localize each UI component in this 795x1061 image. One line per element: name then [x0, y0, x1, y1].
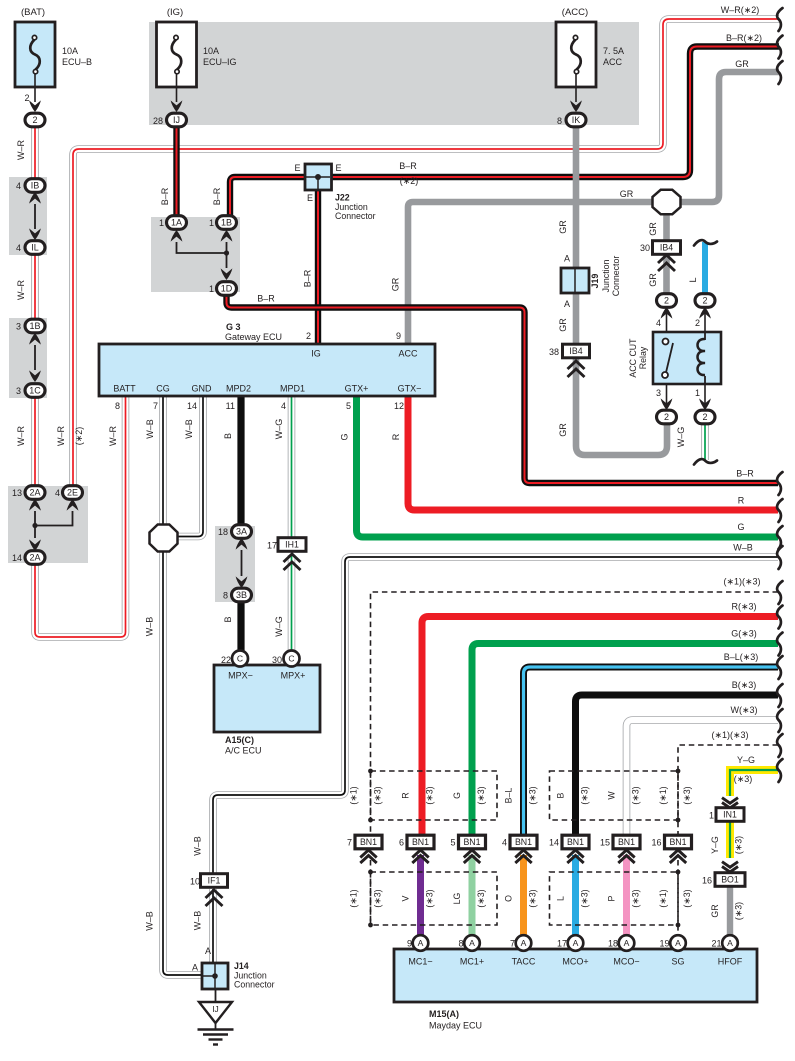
svg-text:1B: 1B	[29, 321, 40, 331]
svg-text:TACC: TACC	[512, 957, 536, 967]
svg-text:V: V	[401, 895, 411, 901]
svg-text:W–G: W–G	[274, 419, 284, 440]
svg-text:(∗1)(∗3): (∗1)(∗3)	[723, 577, 760, 587]
svg-text:IB: IB	[31, 181, 40, 191]
svg-text:(∗3): (∗3)	[425, 889, 435, 907]
svg-text:IJ: IJ	[212, 1004, 219, 1014]
svg-text:(ACC): (ACC)	[562, 7, 588, 18]
svg-text:1D: 1D	[221, 284, 233, 294]
svg-text:GTX−: GTX−	[398, 384, 422, 394]
svg-text:A: A	[205, 946, 211, 956]
svg-text:(∗3): (∗3)	[734, 836, 744, 854]
svg-text:HFOF: HFOF	[718, 957, 743, 967]
svg-text:R: R	[401, 792, 411, 798]
svg-text:2: 2	[306, 331, 311, 341]
svg-text:Relay: Relay	[638, 346, 648, 369]
svg-text:G: G	[737, 522, 744, 532]
svg-text:BN1: BN1	[618, 837, 635, 847]
svg-text:LG: LG	[452, 892, 462, 904]
svg-text:2: 2	[664, 296, 669, 306]
svg-text:Connector: Connector	[335, 211, 376, 221]
svg-text:(∗3): (∗3)	[528, 889, 538, 907]
svg-text:(∗3): (∗3)	[631, 786, 641, 804]
svg-text:2: 2	[664, 412, 669, 422]
svg-text:GTX+: GTX+	[345, 384, 369, 394]
svg-text:2: 2	[32, 115, 37, 125]
svg-text:(∗1): (∗1)	[658, 889, 668, 907]
svg-text:GR: GR	[620, 189, 634, 199]
svg-text:G: G	[452, 792, 462, 799]
svg-text:2: 2	[702, 412, 707, 422]
svg-text:5: 5	[450, 838, 455, 848]
svg-text:M15(A): M15(A)	[429, 1009, 459, 1019]
svg-text:A: A	[727, 938, 733, 948]
svg-text:A: A	[521, 938, 527, 948]
svg-text:10: 10	[190, 877, 200, 887]
svg-text:J22: J22	[335, 193, 350, 203]
svg-text:C: C	[237, 654, 243, 664]
svg-text:Connector: Connector	[611, 256, 621, 297]
svg-text:CG: CG	[156, 384, 170, 394]
svg-text:(∗3): (∗3)	[631, 889, 641, 907]
svg-text:B–R: B–R	[160, 187, 170, 205]
svg-text:BN1: BN1	[412, 837, 429, 847]
svg-text:38: 38	[549, 347, 559, 357]
svg-text:B: B	[223, 433, 233, 439]
svg-text:A15(C): A15(C)	[225, 735, 254, 745]
svg-text:B(∗3): B(∗3)	[732, 680, 757, 690]
svg-text:B–R: B–R	[736, 469, 754, 479]
svg-text:Gateway ECU: Gateway ECU	[225, 332, 282, 342]
svg-text:ECU–IG: ECU–IG	[203, 57, 237, 67]
svg-text:4: 4	[502, 838, 507, 848]
svg-text:30: 30	[640, 243, 650, 253]
svg-text:GR: GR	[391, 277, 401, 291]
svg-text:W–R: W–R	[108, 426, 118, 447]
svg-text:W–R: W–R	[16, 426, 26, 447]
svg-text:1C: 1C	[29, 386, 41, 396]
svg-text:BN1: BN1	[515, 837, 532, 847]
svg-text:30: 30	[272, 655, 282, 665]
svg-text:MPD2: MPD2	[226, 384, 251, 394]
svg-text:W–R: W–R	[56, 426, 66, 447]
svg-text:A/C ECU: A/C ECU	[225, 746, 262, 756]
svg-text:W–B: W–B	[184, 419, 194, 439]
svg-text:(∗1): (∗1)	[349, 786, 359, 804]
svg-text:8: 8	[458, 939, 463, 949]
svg-text:9: 9	[396, 331, 401, 341]
svg-text:(∗3): (∗3)	[425, 786, 435, 804]
svg-text:L: L	[688, 277, 698, 282]
svg-text:GR: GR	[648, 273, 658, 287]
svg-text:IJ: IJ	[173, 115, 180, 125]
svg-text:18: 18	[608, 939, 618, 949]
svg-text:GND: GND	[192, 384, 213, 394]
svg-text:1B: 1B	[221, 218, 232, 228]
svg-text:4: 4	[656, 318, 661, 328]
svg-text:W–B: W–B	[733, 543, 753, 553]
svg-text:19: 19	[659, 939, 669, 949]
svg-text:IN1: IN1	[723, 810, 737, 820]
svg-text:R(∗3): R(∗3)	[731, 602, 756, 612]
svg-text:W–B: W–B	[193, 836, 203, 856]
svg-text:9: 9	[407, 939, 412, 949]
svg-text:BN1: BN1	[567, 837, 584, 847]
svg-text:3: 3	[16, 386, 21, 396]
svg-text:W–G: W–G	[274, 616, 284, 637]
svg-text:1: 1	[209, 218, 214, 228]
svg-text:16: 16	[651, 838, 661, 848]
svg-text:(∗3): (∗3)	[682, 889, 692, 907]
svg-text:(∗3): (∗3)	[734, 902, 744, 920]
svg-text:G: G	[340, 433, 350, 440]
svg-text:1: 1	[709, 811, 714, 821]
svg-text:3: 3	[656, 388, 661, 398]
svg-text:1: 1	[695, 388, 700, 398]
svg-text:(∗2): (∗2)	[400, 176, 419, 186]
svg-text:MCO−: MCO−	[613, 957, 639, 967]
svg-text:GR: GR	[710, 904, 720, 917]
svg-text:ECU–B: ECU–B	[62, 57, 92, 67]
svg-text:(∗3): (∗3)	[476, 889, 486, 907]
svg-text:E: E	[335, 163, 341, 173]
svg-text:MPX−: MPX−	[228, 671, 253, 681]
svg-text:17: 17	[267, 541, 277, 551]
svg-text:MCO+: MCO+	[562, 957, 588, 967]
svg-text:(∗3): (∗3)	[734, 774, 753, 784]
svg-text:B–R(∗2): B–R(∗2)	[726, 33, 762, 43]
svg-text:11: 11	[226, 401, 235, 411]
svg-text:(∗3): (∗3)	[373, 786, 383, 804]
svg-text:J19: J19	[590, 274, 600, 289]
svg-text:(∗3): (∗3)	[580, 786, 590, 804]
svg-text:22: 22	[221, 655, 231, 665]
svg-text:B: B	[556, 792, 566, 798]
svg-text:L: L	[556, 896, 566, 901]
svg-text:4: 4	[16, 243, 21, 253]
svg-text:B–R: B–R	[257, 294, 275, 304]
svg-text:(IG): (IG)	[167, 7, 183, 18]
svg-text:2: 2	[24, 93, 29, 103]
svg-text:(∗3): (∗3)	[373, 889, 383, 907]
svg-text:13: 13	[12, 488, 22, 498]
svg-text:(BAT): (BAT)	[21, 7, 45, 18]
svg-text:W–R(∗2): W–R(∗2)	[721, 5, 760, 15]
svg-text:16: 16	[702, 876, 712, 886]
svg-text:A: A	[418, 938, 424, 948]
svg-text:18: 18	[218, 527, 228, 537]
svg-text:R: R	[391, 433, 401, 440]
svg-text:(∗1)(∗3): (∗1)(∗3)	[711, 730, 748, 740]
svg-text:IG: IG	[311, 349, 321, 359]
svg-text:14: 14	[549, 838, 559, 848]
svg-text:A: A	[564, 254, 570, 264]
svg-text:8: 8	[223, 591, 228, 601]
svg-text:3B: 3B	[236, 590, 247, 600]
svg-text:Y–G: Y–G	[710, 836, 720, 854]
svg-text:GR: GR	[558, 318, 568, 332]
svg-text:B–L: B–L	[504, 788, 514, 804]
svg-text:MPX+: MPX+	[281, 671, 306, 681]
svg-text:BN1: BN1	[463, 837, 480, 847]
svg-text:ACC CUT: ACC CUT	[628, 338, 638, 378]
svg-text:R: R	[738, 496, 745, 506]
svg-text:B: B	[223, 616, 233, 622]
svg-text:BATT: BATT	[113, 384, 136, 394]
svg-text:IF1: IF1	[208, 876, 221, 886]
svg-text:(∗3): (∗3)	[476, 786, 486, 804]
svg-text:O: O	[504, 895, 514, 902]
svg-text:7. 5A: 7. 5A	[603, 46, 624, 56]
svg-text:GR: GR	[735, 59, 749, 69]
svg-text:ACC: ACC	[603, 57, 623, 67]
svg-text:IH1: IH1	[285, 540, 299, 550]
svg-text:IB4: IB4	[660, 243, 673, 253]
svg-text:Connector: Connector	[234, 980, 275, 990]
svg-text:(∗1): (∗1)	[349, 889, 359, 907]
svg-text:(∗2): (∗2)	[74, 427, 84, 446]
svg-text:1: 1	[209, 284, 214, 294]
svg-text:SG: SG	[671, 957, 684, 967]
svg-text:4: 4	[16, 181, 21, 191]
svg-text:(∗1): (∗1)	[658, 786, 668, 804]
svg-text:Y–G: Y–G	[737, 755, 755, 765]
svg-text:4: 4	[281, 401, 286, 411]
svg-text:B–R: B–R	[399, 161, 417, 171]
svg-text:2A: 2A	[29, 553, 40, 563]
svg-text:3: 3	[16, 322, 21, 332]
svg-text:E: E	[294, 163, 300, 173]
svg-text:(∗3): (∗3)	[528, 786, 538, 804]
svg-text:W–R: W–R	[16, 140, 26, 161]
svg-text:3A: 3A	[236, 527, 247, 537]
svg-text:GR: GR	[558, 423, 568, 437]
svg-text:A: A	[192, 963, 198, 973]
svg-text:(∗3): (∗3)	[580, 889, 590, 907]
svg-text:BO1: BO1	[721, 875, 739, 885]
svg-text:1: 1	[159, 218, 164, 228]
svg-text:W: W	[607, 791, 617, 800]
svg-text:14: 14	[12, 553, 22, 563]
svg-text:IB4: IB4	[569, 346, 582, 356]
svg-text:6: 6	[399, 838, 404, 848]
svg-text:ACC: ACC	[398, 349, 418, 359]
svg-text:12: 12	[394, 401, 404, 411]
svg-text:E: E	[307, 193, 313, 203]
svg-text:2A: 2A	[29, 488, 40, 498]
svg-text:2: 2	[695, 318, 700, 328]
svg-text:BN1: BN1	[669, 837, 686, 847]
svg-text:A: A	[469, 938, 475, 948]
svg-text:W–B: W–B	[145, 419, 155, 439]
svg-text:A: A	[573, 938, 579, 948]
svg-text:2E: 2E	[67, 488, 78, 498]
svg-text:W(∗3): W(∗3)	[730, 705, 757, 715]
svg-text:Junction: Junction	[601, 260, 611, 293]
svg-text:A: A	[624, 938, 630, 948]
svg-text:MPD1: MPD1	[280, 384, 305, 394]
svg-text:W–B: W–B	[145, 617, 155, 637]
svg-text:7: 7	[347, 838, 352, 848]
svg-text:5: 5	[346, 401, 351, 411]
svg-text:G 3: G 3	[226, 322, 241, 332]
svg-text:2: 2	[702, 296, 707, 306]
svg-text:G(∗3): G(∗3)	[731, 629, 757, 639]
svg-text:J14: J14	[234, 961, 249, 971]
svg-text:28: 28	[153, 116, 163, 126]
svg-text:IL: IL	[31, 243, 39, 253]
svg-text:GR: GR	[558, 220, 568, 234]
svg-text:17: 17	[557, 939, 567, 949]
svg-text:8: 8	[557, 116, 562, 126]
svg-text:10A: 10A	[203, 46, 219, 56]
svg-text:14: 14	[187, 401, 197, 411]
svg-text:MC1+: MC1+	[460, 957, 484, 967]
svg-text:7: 7	[153, 401, 158, 411]
svg-text:4: 4	[55, 488, 60, 498]
svg-text:7: 7	[510, 939, 515, 949]
svg-text:IK: IK	[572, 115, 581, 125]
svg-text:B–R: B–R	[303, 269, 313, 287]
svg-text:15: 15	[600, 838, 610, 848]
svg-text:21: 21	[711, 939, 721, 949]
svg-text:A: A	[675, 938, 681, 948]
svg-text:MC1−: MC1−	[408, 957, 432, 967]
svg-text:B–L(∗3): B–L(∗3)	[724, 652, 759, 662]
svg-text:W–G: W–G	[676, 427, 686, 448]
svg-text:B–R: B–R	[212, 187, 222, 205]
svg-text:BN1: BN1	[360, 837, 377, 847]
svg-text:GR: GR	[648, 222, 658, 236]
svg-text:W–B: W–B	[145, 911, 155, 931]
svg-text:W–R: W–R	[16, 280, 26, 301]
svg-text:10A: 10A	[62, 46, 78, 56]
svg-text:8: 8	[115, 401, 120, 411]
svg-text:1A: 1A	[171, 218, 182, 228]
svg-text:A: A	[564, 299, 570, 309]
svg-text:(∗3): (∗3)	[682, 786, 692, 804]
svg-text:Mayday ECU: Mayday ECU	[429, 1021, 482, 1031]
svg-text:P: P	[607, 895, 617, 901]
svg-text:W–B: W–B	[193, 911, 203, 931]
svg-text:C: C	[288, 654, 294, 664]
